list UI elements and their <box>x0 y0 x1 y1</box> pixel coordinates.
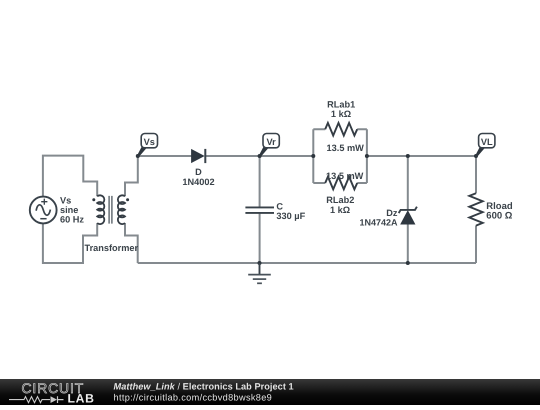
svg-text:RLab1: RLab1 <box>327 99 355 109</box>
resistor Rload <box>469 193 482 225</box>
resistor RLab2 <box>325 177 357 190</box>
voltage source Vs sine 60 Hz <box>30 197 57 224</box>
wire: bottom ground rail <box>138 262 476 264</box>
svg-text:13.5 mW: 13.5 mW <box>327 143 365 153</box>
transformer core <box>109 196 112 224</box>
transformer primary winding <box>97 195 104 224</box>
wire: zener vertical leads <box>407 156 409 263</box>
wire: RLab block right to zener top <box>367 155 408 157</box>
resistor RLab1 <box>325 123 357 136</box>
CircuitLab logo CIRCUIT outline <box>22 380 85 396</box>
svg-text:13.5 mW: 13.5 mW <box>326 171 364 181</box>
wire: capacitor bottom lead <box>259 213 261 263</box>
label Vs sine 60 Hz <box>60 195 84 224</box>
ground <box>248 263 271 283</box>
svg-text:Matthew_Link / Electronics Lab: Matthew_Link / Electronics Lab Project 1 <box>114 381 294 391</box>
wire: Rload bottom lead <box>475 226 477 264</box>
label Transformer <box>84 243 138 253</box>
svg-text:1 kΩ: 1 kΩ <box>331 109 351 119</box>
footer bar <box>0 379 540 405</box>
svg-text:1 kΩ: 1 kΩ <box>330 205 350 215</box>
label RLab1 1 kOhm <box>327 99 355 119</box>
svg-text:Transformer: Transformer <box>84 243 138 253</box>
svg-text:600 Ω: 600 Ω <box>486 211 512 222</box>
svg-text:VL: VL <box>481 137 493 147</box>
CircuitLab logo LAB <box>68 392 95 406</box>
wire: secondary bottom lead to ground rail <box>125 223 138 263</box>
footer title text <box>114 381 294 402</box>
svg-text:Vs: Vs <box>144 137 155 147</box>
svg-text:Vr: Vr <box>266 137 276 147</box>
wire: diode cathode to Vr node <box>206 155 260 157</box>
junction dot RLab left <box>311 154 315 158</box>
capacitor C 330 uF <box>245 207 274 213</box>
power label RLab1 13.5 mW <box>327 143 365 153</box>
wire: RLab parallel block frame <box>313 129 367 183</box>
svg-text:60 Hz: 60 Hz <box>60 215 84 225</box>
svg-text:Dz: Dz <box>386 208 398 218</box>
wire: source bottom loop <box>43 223 97 263</box>
node Vs <box>136 134 158 159</box>
svg-text:D: D <box>195 167 202 177</box>
transformer phase dot secondary <box>126 198 129 201</box>
junction dot Vr bottom rail <box>258 261 262 265</box>
transformer secondary winding <box>118 195 125 224</box>
label C 330 uF <box>276 202 305 222</box>
node Vr <box>258 134 280 159</box>
CircuitLab logo doodle wire-resistor-diode <box>9 396 64 403</box>
wire: top rail Vs node to diode anode <box>138 155 192 157</box>
transformer phase dot primary <box>92 198 95 201</box>
svg-text:C: C <box>276 202 283 212</box>
power label RLab2 13.5 mW <box>326 171 364 181</box>
junction dot RLab right <box>365 154 369 158</box>
wire: capacitor top lead <box>259 156 261 207</box>
wire: source top loop <box>43 156 97 197</box>
svg-text:Vs: Vs <box>60 195 71 205</box>
zener diode Dz 1N4742A <box>399 207 417 224</box>
svg-text:http://circuitlab.com/ccbvd8bw: http://circuitlab.com/ccbvd8bwsk8e9 <box>114 392 273 402</box>
wire: secondary top lead to Vs node <box>125 156 138 196</box>
label RLab2 1 kOhm <box>326 195 354 215</box>
junction dot zener bottom rail <box>406 261 410 265</box>
label D 1N4002 <box>182 167 214 187</box>
svg-text:sine: sine <box>60 205 78 215</box>
svg-text:LAB: LAB <box>68 392 95 405</box>
junction dot zener top <box>406 154 410 158</box>
node VL <box>474 134 495 159</box>
wire: Vr node to RLab block left <box>260 155 314 157</box>
label Dz 1N4742A <box>359 208 398 228</box>
svg-text:1N4002: 1N4002 <box>182 177 214 187</box>
diode D 1N4002 <box>192 149 206 163</box>
svg-text:RLab2: RLab2 <box>326 195 354 205</box>
svg-text:330 µF: 330 µF <box>276 211 305 221</box>
wire: Rload top lead <box>475 156 477 193</box>
label Rload 600 Ohm <box>486 201 513 222</box>
svg-text:1N4742A: 1N4742A <box>359 218 398 228</box>
wire: zener top to VL node <box>408 155 476 157</box>
